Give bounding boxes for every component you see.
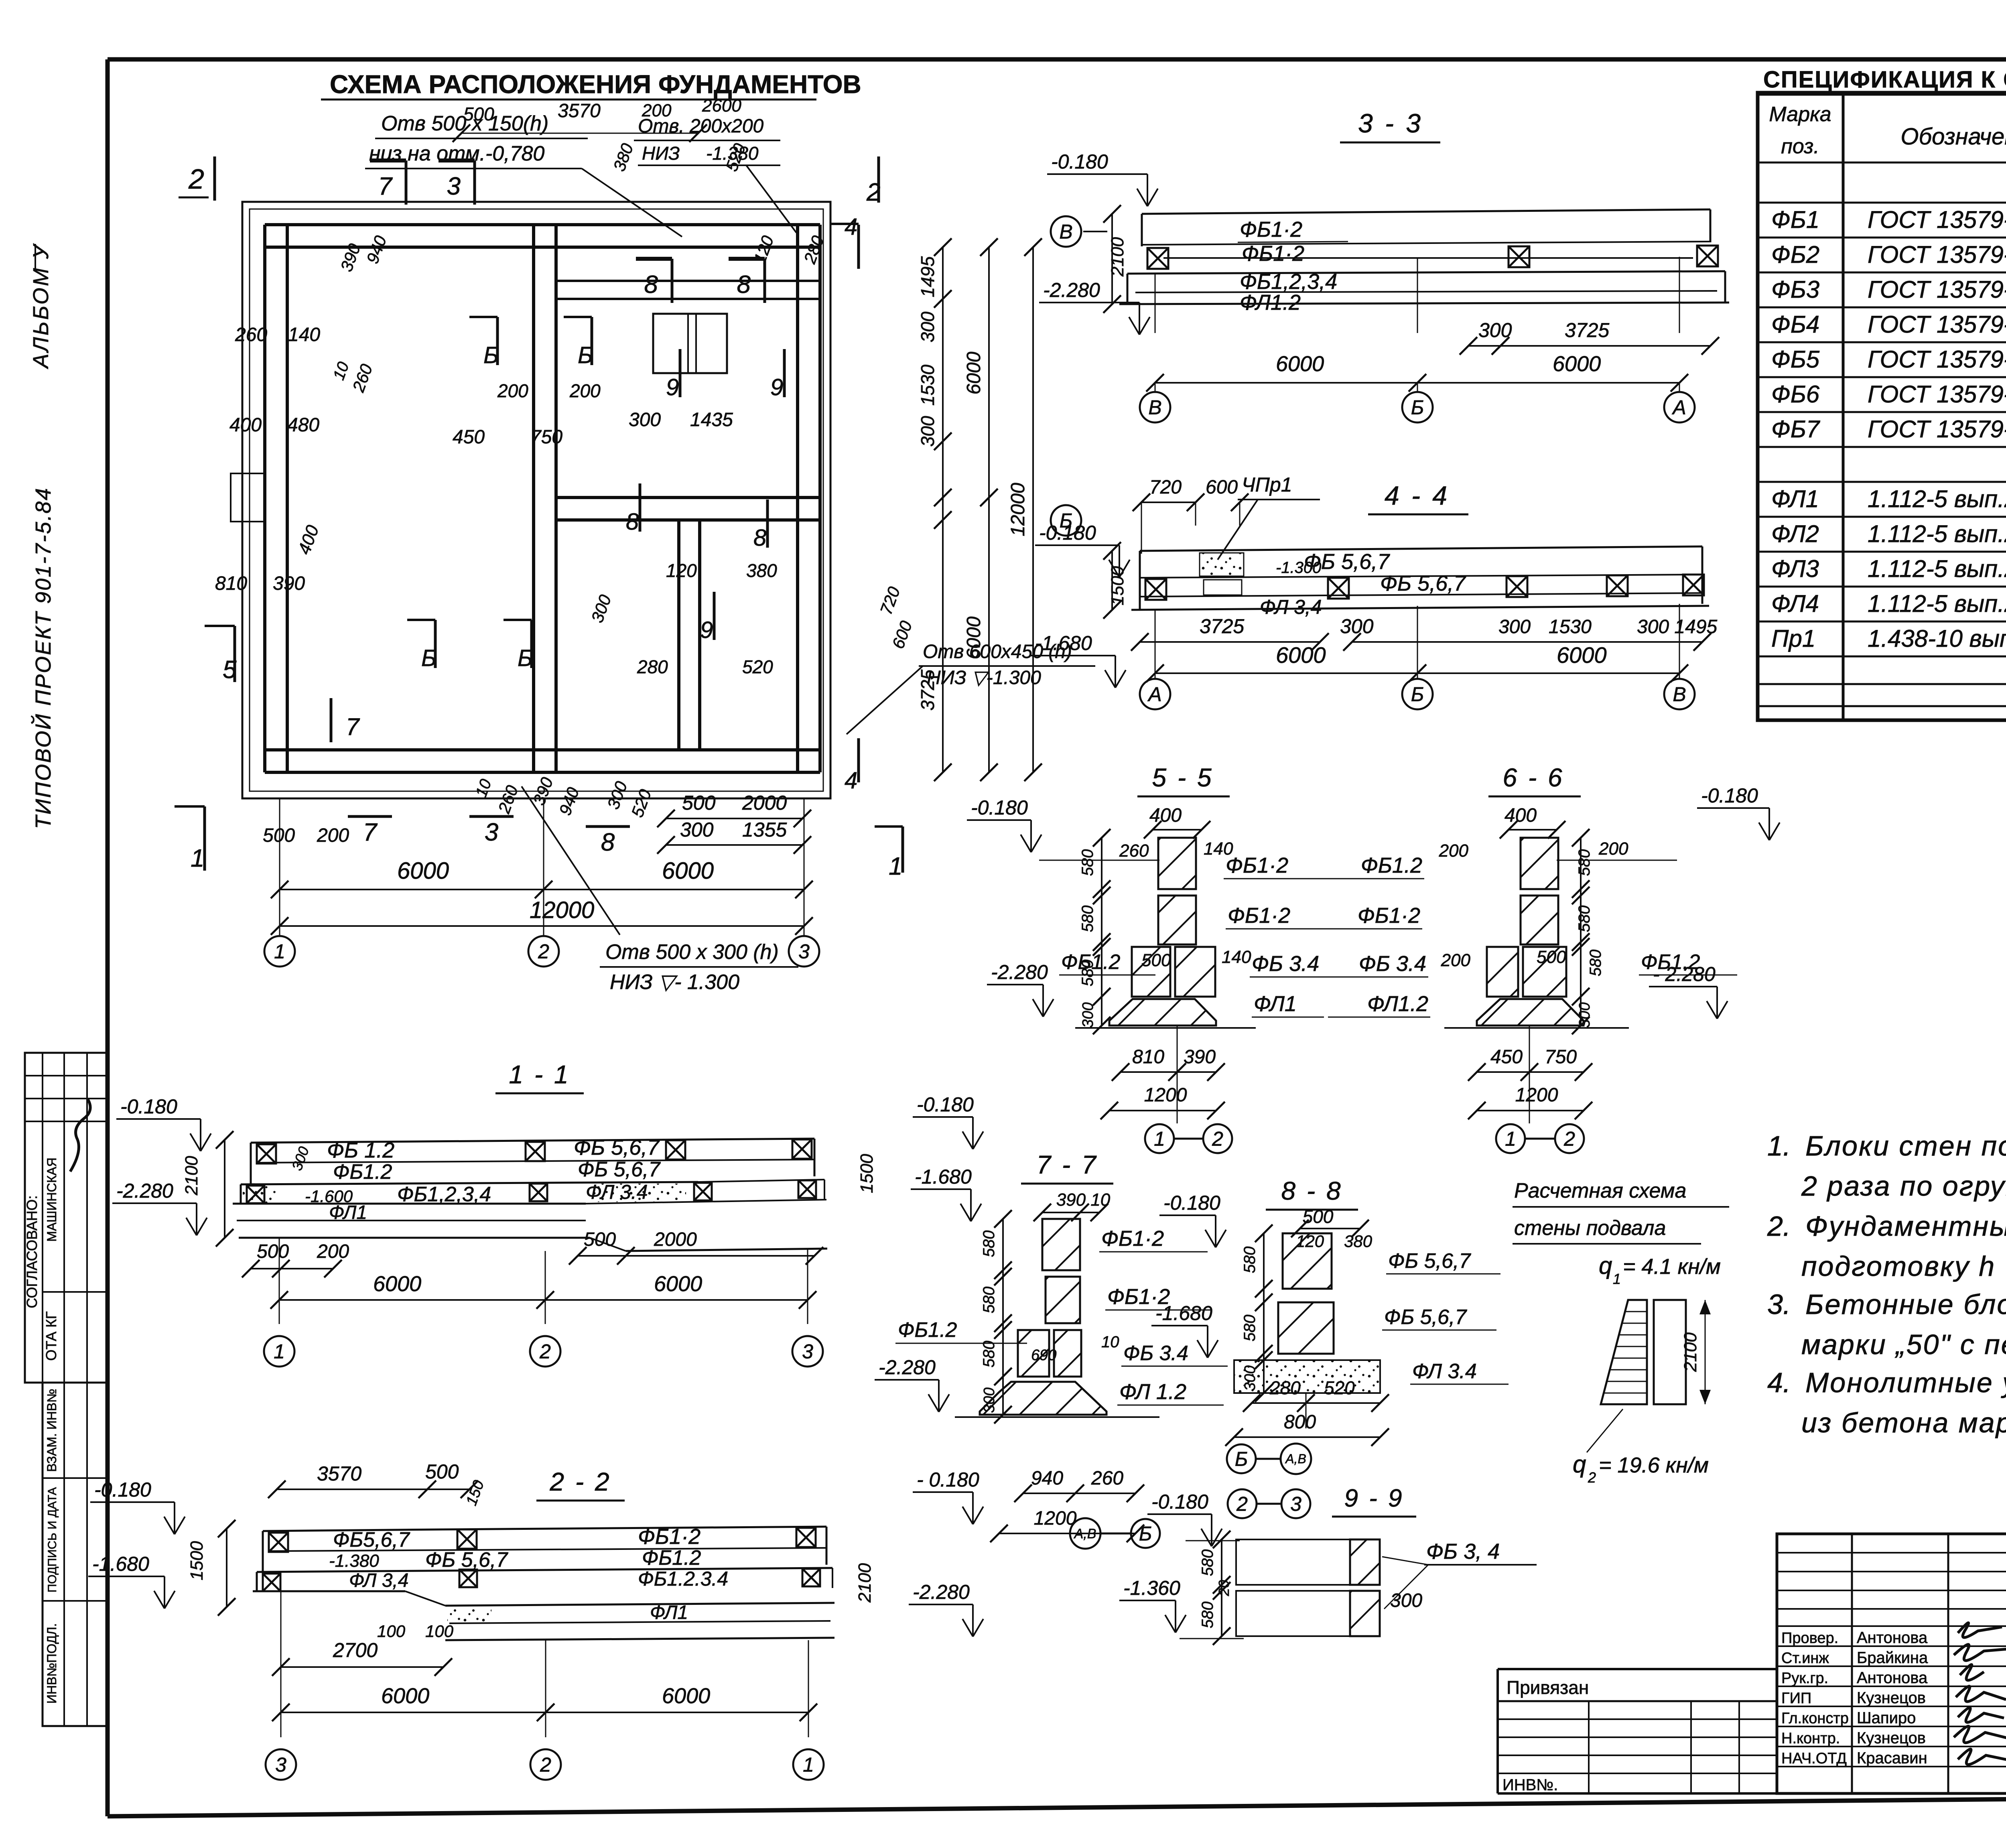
svg-text:Антонова: Антонова — [1857, 1629, 1928, 1647]
svg-text:9 - 9: 9 - 9 — [1344, 1484, 1404, 1512]
svg-text:Блоки стен подвала обмазать го: Блоки стен подвала обмазать горячим биту… — [1805, 1130, 2006, 1162]
svg-text:1: 1 — [1505, 1128, 1516, 1150]
svg-text:580: 580 — [1199, 1549, 1216, 1576]
svg-text:-0.180: -0.180 — [1151, 1491, 1208, 1513]
svg-text:6000: 6000 — [662, 1684, 710, 1708]
svg-text:Обозначение: Обозначение — [1900, 124, 2006, 150]
svg-text:200: 200 — [1439, 841, 1469, 861]
svg-text:-2.280: -2.280 — [879, 1356, 936, 1379]
svg-text:ФЛ2: ФЛ2 — [1771, 520, 1819, 547]
svg-text:ФБ5,6,7: ФБ5,6,7 — [333, 1528, 410, 1552]
svg-text:3: 3 — [1290, 1493, 1301, 1515]
svg-text:ФБ 5,6,7: ФБ 5,6,7 — [425, 1548, 508, 1572]
svg-text:4 - 4: 4 - 4 — [1385, 481, 1450, 510]
svg-text:3 - 3: 3 - 3 — [1358, 108, 1423, 138]
svg-text:марки „50" с перевязкой швов н: марки „50" с перевязкой швов не менее 30… — [1801, 1329, 2006, 1360]
svg-text:390: 390 — [273, 573, 305, 594]
svg-text:ГИП: ГИП — [1781, 1690, 1811, 1707]
svg-text:1355: 1355 — [742, 818, 787, 841]
svg-text:3: 3 — [275, 1754, 286, 1776]
svg-text:1: 1 — [1613, 1271, 1621, 1287]
svg-text:СОГЛАСОВАНО:: СОГЛАСОВАНО: — [24, 1195, 40, 1308]
svg-text:1530: 1530 — [917, 364, 938, 406]
svg-text:ФБ1.2: ФБ1.2 — [642, 1546, 701, 1570]
svg-text:6000: 6000 — [373, 1272, 421, 1296]
svg-text:Б: Б — [1411, 396, 1424, 419]
svg-text:ФЛ1: ФЛ1 — [1254, 992, 1297, 1016]
svg-text:1200: 1200 — [1034, 1508, 1077, 1529]
svg-text:300: 300 — [629, 409, 661, 431]
svg-text:580: 580 — [1241, 1315, 1259, 1342]
svg-text:ТИПОВОЙ ПРОЕКТ 901-7-5.84: ТИПОВОЙ ПРОЕКТ 901-7-5.84 — [31, 487, 55, 829]
svg-text:ФБ 1.2: ФБ 1.2 — [327, 1138, 394, 1162]
svg-text:НИЗ ▽- 1.300: НИЗ ▽- 1.300 — [610, 971, 739, 994]
svg-text:4.: 4. — [1767, 1367, 1791, 1398]
svg-text:4: 4 — [845, 214, 857, 240]
svg-text:-0.180: -0.180 — [917, 1093, 974, 1116]
svg-text:ИНВ№ПОДЛ.: ИНВ№ПОДЛ. — [45, 1623, 59, 1704]
svg-text:ФБ1·2: ФБ1·2 — [1240, 217, 1302, 242]
svg-text:1495: 1495 — [917, 256, 938, 297]
svg-text:ФБ1: ФБ1 — [1771, 206, 1819, 233]
svg-text:720: 720 — [1149, 477, 1182, 498]
svg-text:7: 7 — [346, 713, 360, 740]
svg-text:Отв 500 х 300 (h): Отв 500 х 300 (h) — [605, 940, 779, 964]
svg-text:400: 400 — [1149, 805, 1182, 826]
svg-text:200: 200 — [642, 101, 672, 120]
svg-text:3: 3 — [802, 1340, 813, 1363]
svg-text:1: 1 — [274, 1340, 285, 1363]
svg-text:300: 300 — [917, 416, 938, 447]
svg-text:3: 3 — [447, 173, 461, 200]
svg-text:1.112-5 вып.2: 1.112-5 вып.2 — [1868, 520, 2006, 547]
svg-text:580: 580 — [1199, 1602, 1216, 1629]
svg-text:12000: 12000 — [530, 897, 594, 923]
svg-text:2100: 2100 — [182, 1156, 201, 1196]
svg-text:Антонова: Антонова — [1857, 1669, 1928, 1687]
svg-text:450: 450 — [453, 426, 485, 448]
svg-text:300: 300 — [1242, 1365, 1259, 1391]
svg-text:200: 200 — [317, 825, 349, 846]
svg-text:ФБ 5,6,7: ФБ 5,6,7 — [1384, 1306, 1467, 1329]
svg-text:480: 480 — [287, 414, 319, 436]
svg-text:7: 7 — [363, 818, 378, 846]
svg-text:750: 750 — [1545, 1046, 1577, 1068]
svg-text:1200: 1200 — [1515, 1084, 1558, 1106]
svg-text:2700: 2700 — [333, 1639, 378, 1661]
svg-text:ВЗАМ. ИНВ№: ВЗАМ. ИНВ№ — [45, 1389, 59, 1472]
svg-text:6000: 6000 — [1276, 642, 1326, 668]
svg-text:6000: 6000 — [963, 351, 985, 394]
svg-text:300: 300 — [680, 818, 714, 841]
svg-text:ФБ 3.4: ФБ 3.4 — [1359, 952, 1426, 976]
svg-text:Кузнецов: Кузнецов — [1857, 1689, 1926, 1707]
svg-text:ФБ1·2: ФБ1·2 — [638, 1525, 700, 1549]
svg-text:2 - 2: 2 - 2 — [549, 1467, 611, 1496]
svg-text:Красавин: Красавин — [1857, 1749, 1927, 1767]
svg-text:ФЛ1.2: ФЛ1.2 — [1240, 290, 1301, 315]
svg-text:6000: 6000 — [1553, 352, 1601, 376]
svg-text:Б: Б — [1235, 1448, 1248, 1470]
svg-text:ФБ 5,6,7: ФБ 5,6,7 — [1388, 1249, 1471, 1273]
svg-text:-2.280: -2.280 — [116, 1180, 173, 1202]
svg-text:ГОСТ 13579-78: ГОСТ 13579-78 — [1868, 276, 2006, 303]
svg-text:2: 2 — [540, 1754, 551, 1776]
svg-text:380: 380 — [1344, 1232, 1373, 1251]
svg-text:3.: 3. — [1767, 1289, 1791, 1320]
svg-text:500: 500 — [257, 1241, 289, 1262]
svg-text:7 - 7: 7 - 7 — [1036, 1150, 1098, 1179]
svg-text:ФБ1.2: ФБ1.2 — [333, 1160, 392, 1184]
svg-text:ФБ1,2,3,4: ФБ1,2,3,4 — [1240, 270, 1337, 294]
svg-text:580: 580 — [980, 1287, 998, 1314]
svg-text:600: 600 — [1206, 477, 1238, 498]
svg-text:q: q — [1573, 1451, 1586, 1478]
svg-text:1.112-5 вып.2: 1.112-5 вып.2 — [1868, 485, 2006, 512]
svg-text:12000: 12000 — [1007, 483, 1029, 536]
svg-text:1.438-10 вып.1: 1.438-10 вып.1 — [1868, 625, 2006, 652]
svg-text:подготовку h =100мм .: подготовку h =100мм . — [1801, 1251, 2006, 1282]
svg-text:ФЛ1: ФЛ1 — [650, 1602, 688, 1623]
svg-text:Ст.инж: Ст.инж — [1781, 1650, 1829, 1667]
svg-text:ФБ1.2.3.4: ФБ1.2.3.4 — [638, 1568, 728, 1590]
svg-text:500: 500 — [1537, 947, 1566, 967]
svg-text:4: 4 — [845, 768, 857, 794]
svg-text:ФЛ1: ФЛ1 — [1771, 485, 1819, 512]
svg-text:ФЛ 1.2: ФЛ 1.2 — [1119, 1380, 1186, 1404]
svg-text:Б: Б — [1139, 1523, 1152, 1545]
svg-text:Шапиро: Шапиро — [1857, 1709, 1916, 1727]
svg-text:300: 300 — [1498, 616, 1531, 638]
svg-text:500: 500 — [425, 1460, 459, 1483]
svg-text:8: 8 — [737, 271, 751, 299]
svg-text:ФБ 5,6,7: ФБ 5,6,7 — [1380, 571, 1466, 595]
svg-text:10: 10 — [1101, 1333, 1119, 1351]
svg-text:ФБ 5,6,7: ФБ 5,6,7 — [578, 1158, 661, 1181]
svg-text:ФБ1·2: ФБ1·2 — [1228, 904, 1290, 928]
svg-text:-1.380: -1.380 — [329, 1551, 379, 1571]
svg-text:580: 580 — [1241, 1247, 1259, 1273]
svg-text:750: 750 — [530, 426, 562, 448]
svg-text:-0.180: -0.180 — [94, 1478, 151, 1501]
svg-text:-1.300: -1.300 — [1276, 559, 1321, 577]
svg-text:А,В: А,В — [1074, 1526, 1096, 1541]
svg-text:Привязан: Привязан — [1507, 1677, 1589, 1698]
svg-text:9: 9 — [666, 374, 679, 400]
svg-text:2100: 2100 — [1108, 237, 1127, 277]
svg-text:260: 260 — [235, 324, 267, 345]
svg-text:500: 500 — [584, 1229, 616, 1250]
svg-text:300: 300 — [1340, 615, 1374, 638]
svg-text:ФЛ4: ФЛ4 — [1771, 590, 1819, 617]
svg-text:500: 500 — [463, 104, 494, 124]
svg-text:9: 9 — [700, 617, 713, 643]
svg-text:= 19.6 кн/м: = 19.6 кн/м — [1599, 1453, 1709, 1477]
svg-text:580: 580 — [1079, 849, 1096, 876]
svg-text:В: В — [1059, 221, 1072, 243]
svg-text:ГОСТ 13579-78: ГОСТ 13579-78 — [1868, 416, 2006, 443]
svg-text:ФБ 3.4: ФБ 3.4 — [1123, 1342, 1188, 1365]
svg-text:2000: 2000 — [742, 792, 787, 814]
svg-text:1530: 1530 — [1549, 616, 1592, 638]
svg-text:2: 2 — [538, 940, 549, 963]
svg-text:ФБ1·2: ФБ1·2 — [1101, 1227, 1164, 1251]
svg-text:200: 200 — [569, 380, 601, 401]
svg-text:520: 520 — [1324, 1377, 1355, 1398]
svg-text:ГОСТ 13579-78: ГОСТ 13579-78 — [1868, 381, 2006, 408]
svg-text:ФБ1.2: ФБ1.2 — [1361, 853, 1422, 877]
svg-text:940: 940 — [1031, 1468, 1063, 1489]
svg-text:Провер.: Провер. — [1781, 1630, 1838, 1647]
svg-text:-1.360: -1.360 — [1123, 1577, 1180, 1599]
svg-text:НИЗ ▽-1.300: НИЗ ▽-1.300 — [927, 667, 1041, 688]
svg-text:ФБ1·2: ФБ1·2 — [1242, 242, 1304, 266]
svg-text:8 - 8: 8 - 8 — [1281, 1176, 1342, 1205]
svg-text:1: 1 — [803, 1754, 814, 1776]
svg-text:А: А — [1147, 683, 1161, 706]
svg-text:6000: 6000 — [381, 1684, 429, 1708]
svg-text:1435: 1435 — [690, 409, 733, 431]
svg-text:390 10: 390 10 — [1056, 1190, 1111, 1210]
svg-text:520: 520 — [742, 656, 773, 677]
svg-text:-0.180: -0.180 — [1163, 1192, 1220, 1214]
svg-text:Н.контр.: Н.контр. — [1781, 1730, 1840, 1747]
svg-text:ФБ 3.4: ФБ 3.4 — [1252, 952, 1319, 976]
svg-text:-2.280: -2.280 — [1043, 279, 1100, 301]
svg-text:2100: 2100 — [1681, 1332, 1700, 1372]
svg-text:580: 580 — [1079, 906, 1096, 932]
svg-text:9: 9 — [770, 374, 783, 400]
svg-text:3725: 3725 — [1200, 615, 1244, 638]
svg-text:140: 140 — [288, 324, 320, 345]
svg-text:2: 2 — [188, 163, 204, 195]
svg-text:-0.180: -0.180 — [120, 1095, 177, 1118]
svg-text:300: 300 — [1576, 1002, 1593, 1028]
svg-text:2 раза по огрунтовке.: 2 раза по огрунтовке. — [1801, 1170, 2006, 1202]
svg-text:1: 1 — [274, 940, 285, 963]
svg-text:8: 8 — [626, 509, 639, 535]
svg-text:580: 580 — [980, 1341, 998, 1368]
svg-text:6000: 6000 — [1276, 352, 1324, 376]
svg-text:= 4.1 кн/м: = 4.1 кн/м — [1623, 1255, 1721, 1279]
svg-text:-0.180: -0.180 — [1051, 150, 1108, 173]
svg-text:1.112-5 вып.2: 1.112-5 вып.2 — [1868, 590, 2006, 617]
svg-text:2000: 2000 — [654, 1229, 697, 1250]
svg-text:А,В: А,В — [1285, 1452, 1306, 1466]
svg-text:300: 300 — [1390, 1590, 1422, 1611]
svg-text:20: 20 — [1216, 1580, 1232, 1596]
svg-text:-2.280: -2.280 — [991, 961, 1048, 983]
svg-text:-0.180: -0.180 — [971, 796, 1028, 819]
svg-text:3570: 3570 — [317, 1462, 361, 1485]
svg-text:А: А — [1671, 396, 1686, 419]
svg-text:ОТА КГ: ОТА КГ — [43, 1311, 59, 1361]
svg-text:ГОСТ 13579-78: ГОСТ 13579-78 — [1868, 241, 2006, 268]
svg-text:поз.: поз. — [1781, 135, 1819, 158]
svg-text:1500: 1500 — [857, 1154, 877, 1193]
svg-text:Кузнецов: Кузнецов — [1857, 1729, 1926, 1747]
svg-text:3: 3 — [798, 940, 810, 963]
svg-text:800: 800 — [1284, 1411, 1316, 1433]
svg-text:2: 2 — [1212, 1128, 1223, 1150]
svg-text:Пр1: Пр1 — [1771, 625, 1815, 652]
svg-text:Расчетная схема: Расчетная схема — [1514, 1179, 1686, 1202]
svg-text:1 - 1: 1 - 1 — [509, 1060, 570, 1089]
svg-text:Фундаментные плиты уложить на: Фундаментные плиты уложить на песчаную — [1805, 1210, 2006, 1242]
svg-text:ФЛ 3.4: ФЛ 3.4 — [586, 1181, 648, 1203]
svg-text:В: В — [1673, 683, 1686, 706]
svg-text:ФБ4: ФБ4 — [1771, 311, 1819, 338]
svg-text:ФБ 5,6,7: ФБ 5,6,7 — [574, 1135, 660, 1160]
svg-text:- 0.180: - 0.180 — [917, 1468, 979, 1491]
svg-text:400: 400 — [1504, 805, 1537, 826]
svg-text:ЧПр1: ЧПр1 — [1242, 473, 1292, 496]
svg-text:260: 260 — [1119, 841, 1149, 861]
svg-text:Бетонные блоки укладывать на ц: Бетонные блоки укладывать на цементном р… — [1805, 1289, 2006, 1320]
svg-text:ФБ5: ФБ5 — [1771, 346, 1820, 373]
svg-text:-1.680: -1.680 — [915, 1166, 972, 1188]
svg-text:ФЛ1: ФЛ1 — [329, 1202, 367, 1223]
svg-text:300: 300 — [1080, 1002, 1096, 1028]
svg-text:580: 580 — [1079, 960, 1096, 987]
svg-text:1200: 1200 — [1144, 1084, 1187, 1106]
svg-text:ФЛ 3,4: ФЛ 3,4 — [1260, 596, 1322, 618]
svg-text:3: 3 — [485, 818, 498, 846]
svg-text:200: 200 — [497, 380, 528, 401]
svg-text:100: 100 — [377, 1622, 406, 1641]
svg-text:В: В — [1148, 396, 1161, 419]
svg-text:ФЛ1.2: ФЛ1.2 — [1367, 992, 1428, 1016]
svg-text:1: 1 — [889, 853, 902, 880]
svg-text:- 2.280: - 2.280 — [1653, 963, 1716, 985]
svg-text:100: 100 — [425, 1622, 454, 1641]
svg-text:ГОСТ 13579-78: ГОСТ 13579-78 — [1868, 346, 2006, 373]
svg-text:7: 7 — [378, 173, 393, 200]
svg-text:СПЕЦИФИКАЦИЯ К СХЕМЕ РАСПОЛОЖЕ: СПЕЦИФИКАЦИЯ К СХЕМЕ РАСПОЛОЖЕНИЯ ФУНДАМ… — [1763, 67, 2006, 93]
svg-text:ФБ2: ФБ2 — [1771, 241, 1819, 268]
svg-text:200: 200 — [1598, 839, 1628, 859]
svg-text:500: 500 — [1303, 1206, 1334, 1227]
svg-text:810: 810 — [215, 573, 247, 594]
svg-text:стены подвала: стены подвала — [1514, 1216, 1666, 1240]
svg-text:140: 140 — [1222, 947, 1251, 967]
svg-text:ГОСТ 13579-78: ГОСТ 13579-78 — [1868, 206, 2006, 233]
svg-text:810: 810 — [1132, 1046, 1164, 1068]
svg-text:2: 2 — [1563, 1128, 1575, 1150]
svg-text:q: q — [1599, 1252, 1612, 1279]
svg-text:6000: 6000 — [662, 858, 714, 884]
svg-text:1500: 1500 — [187, 1541, 207, 1580]
svg-text:3725: 3725 — [917, 669, 938, 711]
svg-text:8: 8 — [753, 525, 766, 551]
svg-text:ФБ 3, 4: ФБ 3, 4 — [1426, 1539, 1500, 1564]
svg-text:8: 8 — [601, 829, 615, 856]
svg-text:МАШИНСКАЯ: МАШИНСКАЯ — [45, 1158, 59, 1242]
svg-text:1: 1 — [191, 845, 204, 872]
svg-text:1.112-5 вып.2: 1.112-5 вып.2 — [1868, 555, 2006, 582]
svg-text:НИЗ: НИЗ — [642, 143, 680, 164]
svg-text:8: 8 — [644, 271, 658, 299]
svg-text:3725: 3725 — [1565, 319, 1609, 341]
svg-text:НАЧ.ОТД: НАЧ.ОТД — [1781, 1750, 1847, 1767]
svg-text:ПОДПИСЬ И ДАТА: ПОДПИСЬ И ДАТА — [46, 1487, 59, 1593]
svg-text:280: 280 — [1269, 1377, 1301, 1398]
svg-text:390: 390 — [1184, 1046, 1216, 1068]
svg-text:1: 1 — [1154, 1128, 1165, 1150]
svg-text:ФБ6: ФБ6 — [1771, 381, 1820, 408]
svg-text:300: 300 — [981, 1387, 998, 1413]
svg-text:280: 280 — [637, 656, 668, 677]
svg-text:690: 690 — [1031, 1347, 1056, 1364]
svg-text:ФБ1·2: ФБ1·2 — [1358, 904, 1420, 928]
svg-text:400: 400 — [229, 414, 262, 436]
svg-text:2: 2 — [1588, 1469, 1596, 1486]
svg-text:ФЛ 3.4: ФЛ 3.4 — [1412, 1360, 1477, 1383]
svg-text:ИНВ№.: ИНВ№. — [1502, 1776, 1558, 1794]
svg-text:АЛЬБОМ У: АЛЬБОМ У — [29, 243, 53, 369]
svg-text:120: 120 — [666, 560, 697, 581]
svg-text:3570: 3570 — [558, 100, 601, 122]
svg-text:200: 200 — [317, 1241, 349, 1262]
svg-text:2: 2 — [1236, 1493, 1248, 1515]
svg-text:Марка: Марка — [1769, 103, 1831, 126]
svg-text:ФБ1.2: ФБ1.2 — [898, 1318, 957, 1342]
svg-text:Рук.гр.: Рук.гр. — [1781, 1670, 1828, 1687]
svg-text:-0.180: -0.180 — [1039, 522, 1096, 544]
svg-text:580: 580 — [1576, 906, 1593, 932]
svg-text:500: 500 — [263, 825, 295, 846]
svg-text:6000: 6000 — [654, 1272, 702, 1296]
svg-text:260: 260 — [1091, 1468, 1123, 1489]
svg-text:-1.680: -1.680 — [1155, 1302, 1212, 1324]
svg-text:-1.680: -1.680 — [1035, 632, 1092, 654]
svg-text:ФБ1,2,3,4: ФБ1,2,3,4 — [397, 1183, 491, 1206]
svg-text:ФБ7: ФБ7 — [1771, 416, 1821, 443]
svg-text:ГОСТ 13579-78: ГОСТ 13579-78 — [1868, 311, 2006, 338]
svg-text:ФЛ3: ФЛ3 — [1771, 555, 1819, 582]
svg-text:6000: 6000 — [963, 616, 985, 659]
svg-text:6 - 6: 6 - 6 — [1502, 763, 1564, 792]
svg-text:ФЛ 3,4: ФЛ 3,4 — [349, 1570, 408, 1591]
svg-text:СХЕМА РАСПОЛОЖЕНИЯ ФУНДАМЕНТ: СХЕМА РАСПОЛОЖЕНИЯ ФУНДАМЕНТОВ — [330, 70, 861, 99]
svg-text:300: 300 — [917, 311, 938, 342]
svg-text:580: 580 — [1576, 849, 1593, 876]
svg-text:Гл.констр: Гл.констр — [1781, 1710, 1849, 1727]
svg-text:380: 380 — [746, 560, 777, 581]
svg-text:500: 500 — [682, 792, 716, 814]
svg-text:Монолитные участки между блока: Монолитные участки между блоками выполня… — [1805, 1367, 2006, 1398]
svg-text:580: 580 — [1587, 950, 1604, 977]
svg-text:Б: Б — [1411, 683, 1424, 706]
svg-text:1.: 1. — [1767, 1130, 1791, 1162]
svg-text:2600: 2600 — [702, 96, 741, 116]
svg-text:6000: 6000 — [1557, 642, 1607, 668]
svg-text:1500: 1500 — [1108, 566, 1127, 605]
svg-text:ФБ3: ФБ3 — [1771, 276, 1819, 303]
svg-text:5 - 5: 5 - 5 — [1152, 763, 1213, 792]
svg-text:580: 580 — [980, 1231, 998, 1257]
svg-text:2: 2 — [539, 1340, 551, 1363]
svg-text:6000: 6000 — [397, 858, 449, 884]
svg-text:-1.680: -1.680 — [92, 1553, 149, 1575]
svg-text:500: 500 — [1141, 950, 1171, 970]
svg-text:2100: 2100 — [855, 1563, 875, 1603]
svg-text:-2.280: -2.280 — [913, 1581, 970, 1603]
svg-text:ФБ1·2: ФБ1·2 — [1226, 853, 1288, 877]
svg-text:300 1495: 300 1495 — [1637, 616, 1718, 638]
svg-text:450: 450 — [1490, 1046, 1523, 1068]
svg-text:200: 200 — [1441, 950, 1471, 970]
